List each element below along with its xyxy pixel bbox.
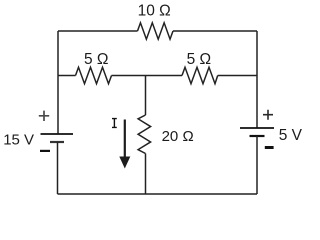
resistor 10Ω zigzag (138, 23, 174, 39)
battery 15V long plate (41, 133, 74, 135)
wire left vertical upper (57, 31, 59, 134)
wire middle-right segment (218, 75, 257, 77)
battery 15V minus sign (40, 150, 50, 152)
battery 15V plus sign (39, 111, 49, 121)
battery 5V minus sign (265, 146, 274, 149)
battery 5V short plate (250, 135, 265, 137)
wire top-right segment (173, 30, 257, 32)
svg-text:10 Ω: 10 Ω (138, 3, 171, 20)
svg-text:20 Ω: 20 Ω (162, 128, 194, 145)
svg-text:5 V: 5 V (279, 127, 303, 144)
battery 5V plus sign (263, 110, 273, 120)
battery 5V long plate (240, 127, 274, 129)
wire middle vertical lower (145, 154, 147, 195)
wire middle-left segment (58, 75, 76, 77)
wire left vertical lower (57, 142, 59, 194)
wire middle vertical upper (145, 76, 147, 116)
wire right vertical lower (256, 136, 258, 194)
wire top-left segment (58, 30, 138, 32)
battery 15V short plate (50, 141, 64, 143)
label I (112, 119, 117, 128)
svg-text:15 V: 15 V (3, 131, 34, 148)
current arrow I shaft (124, 120, 126, 158)
wire right vertical upper (256, 31, 258, 128)
svg-text:5 Ω: 5 Ω (84, 51, 109, 68)
resistor 5Ω right zigzag (182, 67, 218, 83)
svg-text:5 Ω: 5 Ω (187, 51, 212, 68)
wire middle-center segment (112, 75, 183, 77)
resistor 20Ω vertical zigzag (138, 115, 151, 154)
current arrow I head (119, 157, 130, 169)
wire bottom (58, 193, 258, 195)
resistor 5Ω left zigzag (76, 67, 112, 83)
